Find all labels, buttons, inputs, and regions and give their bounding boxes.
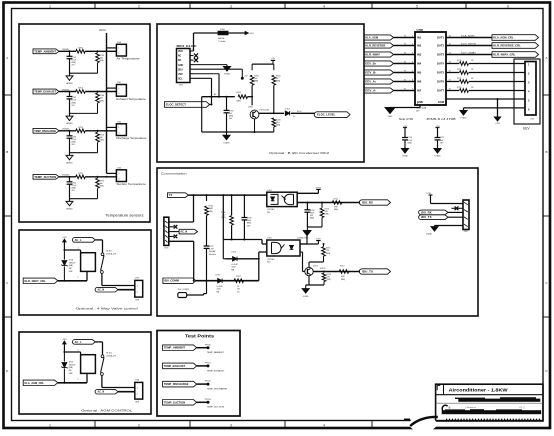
relay RL701 coil <box>81 355 96 374</box>
svg-text:TEMP_DISCHARGE: TEMP_DISCHARGE <box>207 388 228 391</box>
diode D704 flyback <box>63 250 65 260</box>
svg-text:RL701: RL701 <box>106 352 112 354</box>
flag KLA_AGM_CRL <box>23 380 58 385</box>
svg-text:BAV1A: BAV1A <box>218 37 225 40</box>
svg-text:TP701: TP701 <box>205 363 212 365</box>
svg-text:Test Points: Test Points <box>185 333 215 338</box>
svg-text:DGND: DGND <box>303 296 309 298</box>
wire to TP700 <box>197 347 208 349</box>
wire opto2 anode bus <box>223 239 262 241</box>
wire coil return <box>58 280 87 282</box>
svg-text:B: B <box>449 405 451 409</box>
connector J703 comm out <box>463 200 469 230</box>
wire SCL pin to detect riser <box>194 77 212 79</box>
svg-text:TEMP_SUCTION: TEMP_SUCTION <box>164 401 185 404</box>
svg-text:2: 2 <box>138 423 140 427</box>
wire bottom rail to emitter <box>202 131 274 133</box>
svg-text:6: 6 <box>507 4 509 8</box>
svg-text:(MB): (MB) <box>326 253 330 255</box>
svg-text:R712: R712 <box>334 199 339 201</box>
svg-text:OUT1: OUT1 <box>437 36 445 40</box>
svg-text:J707: J707 <box>135 278 139 280</box>
wire OUT6 to EEV <box>446 81 459 83</box>
opto U702 LED <box>290 246 294 250</box>
watermark black band 2 <box>442 410 542 414</box>
svg-text:AC_N: AC_N <box>97 391 104 394</box>
connector J706 MC2_ELOC <box>177 49 191 83</box>
IC U708 ULN2003A <box>415 32 446 105</box>
svg-text:Optional : AGM CONTROL: Optional : AGM CONTROL <box>81 409 132 413</box>
power +5V rail <box>252 63 274 65</box>
wire TX output line <box>313 271 360 273</box>
wire EEV pin5 supply <box>498 98 526 100</box>
svg-text:AC_L: AC_L <box>75 239 82 242</box>
communication section box <box>157 168 478 316</box>
svg-text:1W: 1W <box>237 289 240 291</box>
svg-text:GND: GND <box>388 116 393 118</box>
svg-text:J703: J703 <box>117 167 121 169</box>
svg-text:(MB): (MB) <box>327 279 331 281</box>
flag IDU_TX at connector <box>419 215 448 220</box>
test point TP701 <box>207 364 210 367</box>
svg-text:TEMP_AMBIENT: TEMP_AMBIENT <box>164 347 186 350</box>
svg-text:IDU_RX: IDU_RX <box>421 211 432 214</box>
svg-text:JJM1A-12V: JJM1A-12V <box>106 354 117 357</box>
wire detect node down rail <box>201 97 203 132</box>
svg-text:LL4148: LL4148 <box>217 286 223 288</box>
flag TEMP_DISCHARGE <box>33 128 59 133</box>
svg-text:(MB): (MB) <box>100 100 104 102</box>
flag AC_L top <box>72 238 95 243</box>
power +26V tap at COM <box>494 117 500 121</box>
section box Optional : 4 Way Valve control <box>19 230 151 315</box>
svg-text:DGND: DGND <box>402 156 409 158</box>
wire EEV_A+ to IN6 <box>394 81 416 83</box>
ground DGND below C705 <box>226 132 228 135</box>
title block frame <box>436 384 543 421</box>
diode D707 <box>218 279 222 283</box>
wire EEV_A- to IN7 <box>394 90 416 92</box>
wire contact top <box>95 239 102 241</box>
svg-text:U708: U708 <box>417 28 424 32</box>
svg-text:IN3: IN3 <box>417 53 422 57</box>
svg-text:Temperature sensors: Temperature sensors <box>106 214 144 218</box>
flag EEV_B+ <box>364 61 394 66</box>
svg-text:TEMP_DISCHARGE: TEMP_DISCHARGE <box>164 383 189 386</box>
wire contact to AC_N <box>101 375 103 387</box>
wire IDU_COMM line <box>196 280 259 282</box>
ground DGND above opto2 <box>300 243 307 245</box>
svg-text:PIN5-6 of J708: PIN5-6 of J708 <box>427 117 457 121</box>
ground DGND connector <box>431 227 438 232</box>
flag IDU_RX right <box>359 200 390 205</box>
svg-text:IN6: IN6 <box>417 80 422 84</box>
svg-text:R707: R707 <box>236 276 241 278</box>
flag ELOC_DETECT <box>165 102 210 108</box>
svg-text:EEV_A+: EEV_A+ <box>365 80 377 84</box>
resistor R770 <box>97 131 99 132</box>
wire EEV pin6 to GND <box>464 107 526 109</box>
capacitor C708 <box>306 203 308 210</box>
svg-text:OUT2: OUT2 <box>437 44 445 48</box>
wire connector pin1 <box>431 203 464 205</box>
title block column divider <box>443 384 445 395</box>
wire TEMP_SUCTION to divider <box>59 176 76 178</box>
flag TEMP_SUCTION <box>33 174 59 179</box>
wire OUT5 to EEV <box>446 72 459 74</box>
right margin row ticks <box>543 94 550 96</box>
svg-text:KLR_REVERSE_CRL: KLR_REVERSE_CRL <box>493 44 521 48</box>
svg-text:NC: NC <box>178 56 182 58</box>
wire opto1 emitter line RX <box>297 202 360 204</box>
flag KLR_4WAY_CRL <box>492 52 539 58</box>
opto U701 LED <box>271 197 275 201</box>
svg-text:1N4007: 1N4007 <box>69 262 76 264</box>
bottom margin column ticks <box>94 421 96 429</box>
watermark C mark <box>442 405 448 412</box>
capacitor C705 on detect node <box>226 97 228 111</box>
svg-text:IDU_RX: IDU_RX <box>362 201 373 205</box>
svg-text:AC_N: AC_N <box>180 231 187 234</box>
svg-text:R722: R722 <box>457 78 461 80</box>
svg-text:MazeDa: MazeDa <box>209 254 217 256</box>
svg-text:KLR_REVERSE: KLR_REVERSE <box>365 44 386 48</box>
svg-text:(MB): (MB) <box>237 101 241 103</box>
svg-text:(MB): (MB) <box>310 218 314 220</box>
svg-text:CLB7A-C: CLB7A-C <box>267 208 276 211</box>
wire contact to AC_N <box>101 273 103 285</box>
ground AGND ch3 <box>66 155 73 159</box>
svg-text:IDU_COMM: IDU_COMM <box>178 289 189 291</box>
flag KLR_REVERSE_CRL <box>492 43 539 49</box>
svg-text:KLA_AGM_CRL: KLA_AGM_CRL <box>493 36 514 40</box>
svg-text:VSP: VSP <box>178 74 183 76</box>
svg-text:B: B <box>545 150 547 154</box>
wire TEMP_DISCHARGE to divider <box>59 130 76 132</box>
svg-text:R721: R721 <box>457 69 461 71</box>
svg-text:AVCC: AVCC <box>99 28 106 32</box>
svg-text:J705: J705 <box>530 119 534 121</box>
svg-text:TEMP_SUCTION: TEMP_SUCTION <box>207 407 225 409</box>
wire connector pin4 ground <box>435 225 464 227</box>
wire TEMP_EXHAUST to divider <box>59 91 76 93</box>
opto U701 transistor notch <box>284 194 293 204</box>
svg-text:(MB): (MB) <box>69 265 73 267</box>
ground GND EEV <box>460 111 467 116</box>
svg-text:DVDD: DVDD <box>316 187 322 189</box>
svg-text:+26V: +26V <box>495 123 501 125</box>
svg-text:IN2: IN2 <box>417 44 422 48</box>
resistor R706 <box>231 195 233 215</box>
svg-text:RL700: RL700 <box>106 250 112 252</box>
relay RL700 coil <box>81 253 96 272</box>
svg-text:J700: J700 <box>117 42 121 44</box>
relay contact switch blade <box>101 255 104 270</box>
wire to TP702 <box>197 383 208 385</box>
svg-text:IN7: IN7 <box>417 89 422 93</box>
flag AC_N comm <box>169 231 179 233</box>
flag IDU_TX right <box>359 269 390 274</box>
svg-text:2: 2 <box>78 379 79 381</box>
svg-text:3: 3 <box>230 423 232 427</box>
no-connect pin2 connector <box>452 207 464 209</box>
wire TEMP_AMBIENT to divider <box>59 50 76 52</box>
no-connect pin4 <box>169 235 174 237</box>
svg-text:OUT4: OUT4 <box>437 62 445 66</box>
watermark logo white ellipse <box>409 416 437 431</box>
svg-text:OUT6: OUT6 <box>437 80 445 84</box>
ground GND of U708 <box>385 108 395 114</box>
flag TEMP_AMBIENT <box>33 49 59 54</box>
wire collector output <box>259 112 284 114</box>
svg-text:D706: D706 <box>231 252 236 254</box>
svg-text:LL4148: LL4148 <box>231 264 237 266</box>
wire AC_N to connector <box>118 289 135 291</box>
wire IC GND pin to ground <box>419 105 421 108</box>
svg-text:J703: J703 <box>464 231 468 233</box>
resistor R708 lower <box>272 118 276 127</box>
I2C condenser section box <box>157 24 364 162</box>
wire EEV_B+ to IN4 <box>394 63 416 65</box>
svg-text:EEV_B+: EEV_B+ <box>365 62 377 66</box>
svg-text:SCL: SCL <box>178 78 183 80</box>
resistor R766 <box>97 92 99 93</box>
svg-text:PGND: PGND <box>461 118 467 120</box>
svg-text:TEMP_AMBIENT: TEMP_AMBIENT <box>207 351 225 354</box>
wire ELOC_DETECT to node <box>210 104 212 106</box>
resistor R761 <box>76 175 86 179</box>
svg-text:SDA: SDA <box>178 68 183 71</box>
svg-text:Optional : 4 Way Valve control: Optional : 4 Way Valve control <box>76 307 138 311</box>
capacitor C707 series <box>206 216 208 247</box>
svg-text:5%: 5% <box>237 291 240 293</box>
svg-text:ELOC: ELOC <box>297 111 303 113</box>
wire opto2 cathode riser <box>258 252 260 281</box>
title block bracket mark <box>437 385 440 390</box>
power +26V relay <box>63 239 67 242</box>
svg-text:KLA_AGM_CRL: KLA_AGM_CRL <box>25 382 45 385</box>
flag test point TEMP_DISCHARGE <box>163 381 197 387</box>
connector J702 <box>116 124 126 136</box>
connector J700 <box>116 44 126 56</box>
svg-text:KLA_AGM_: KLA_AGM_ <box>461 34 476 37</box>
svg-text:J708: J708 <box>135 380 139 382</box>
wire KLR_REVERSE to IN2 <box>394 45 416 47</box>
svg-text:(MB): (MB) <box>254 81 258 83</box>
power D702 tap <box>300 243 318 245</box>
flag AC_N bottom <box>95 287 118 292</box>
svg-text:EEV_B-: EEV_B- <box>365 71 376 75</box>
resistor R759 <box>76 129 86 133</box>
svg-text:Air Temperature: Air Temperature <box>116 58 140 61</box>
svg-text:1N4448: 1N4448 <box>62 49 69 51</box>
svg-text:COM: COM <box>438 100 445 104</box>
svg-text:4: 4 <box>78 248 79 250</box>
svg-text:(MB): (MB) <box>100 186 104 188</box>
svg-text:8W: 8W <box>69 268 72 270</box>
svg-text:KLR_4WAY: KLR_4WAY <box>365 53 380 57</box>
wire pin1 to diode D700 <box>193 33 195 51</box>
svg-text:KLR_4WAY_CRL: KLR_4WAY_CRL <box>493 53 516 57</box>
resistor R720 2R <box>460 62 469 66</box>
wire pin1 riser <box>169 221 194 223</box>
diode D706 upper <box>225 258 258 260</box>
svg-text:+26V: +26V <box>62 237 67 239</box>
title block row line 2 <box>436 402 543 404</box>
svg-text:2: 2 <box>138 4 140 8</box>
connector J701 <box>116 85 126 97</box>
flag EEV_A+ <box>364 79 394 84</box>
svg-text:(MB): (MB) <box>209 211 213 213</box>
test points section box <box>157 331 240 417</box>
wire COM to +26V <box>446 98 498 100</box>
svg-text:KST10: KST10 <box>320 268 326 270</box>
test point TP703 <box>207 401 210 404</box>
svg-text:KLR_REVE: KLR_REVE <box>461 43 477 45</box>
wire OUT2 <box>446 45 492 47</box>
svg-text:IDU_TX: IDU_TX <box>421 216 432 219</box>
svg-text:R710: R710 <box>340 266 345 268</box>
svg-text:KT ( ): KT ( ) <box>519 407 525 409</box>
svg-text:ELOC_DETECT: ELOC_DETECT <box>166 103 187 107</box>
svg-text:IDU_TX: IDU_TX <box>362 270 373 274</box>
ground PGND <box>223 67 230 72</box>
svg-text:(MB): (MB) <box>100 140 104 142</box>
wire TX divider branch <box>222 195 224 239</box>
wire pin5 riser down <box>169 240 194 242</box>
transistor Q701 <box>305 267 313 275</box>
ground AGND ch4 <box>66 201 73 205</box>
svg-text:OUT3: OUT3 <box>437 53 445 57</box>
svg-text:KLR_4WAY: KLR_4WAY <box>461 51 477 54</box>
connector J704 comm header <box>164 217 169 245</box>
wire opto1 collector to DVDD <box>297 192 318 194</box>
flag EEV_A- <box>364 88 394 93</box>
connector J705 EEV pin header <box>525 62 536 116</box>
svg-text:TEMP_AMBIENT: TEMP_AMBIENT <box>34 49 56 53</box>
flag ELOC_LEVEL <box>314 112 350 118</box>
svg-text:(MB): (MB) <box>69 367 73 369</box>
svg-text:TP702: TP702 <box>205 381 212 383</box>
svg-text:D704: D704 <box>69 260 74 262</box>
svg-text:(MB): (MB) <box>100 60 104 62</box>
svg-text:+26V: +26V <box>62 339 67 341</box>
svg-text:DGND: DGND <box>302 238 308 240</box>
ground DGND under Q701 <box>305 285 307 289</box>
svg-text:1N4448: 1N4448 <box>62 175 69 177</box>
junction node ch4 <box>69 176 71 178</box>
svg-text:Discharge Temperature: Discharge Temperature <box>116 137 147 140</box>
svg-text:TEMP_EXHAUST: TEMP_EXHAUST <box>207 369 225 372</box>
svg-text:TEMP_EXHAUST: TEMP_EXHAUST <box>164 365 186 368</box>
svg-text:D707: D707 <box>216 274 221 276</box>
wire OUT3 <box>446 54 492 56</box>
resistor R721 2R <box>460 71 469 75</box>
capacitor C703 <box>69 131 71 136</box>
svg-text:Tr: blabla: Tr: blabla <box>218 41 225 43</box>
capacitor C706 <box>243 195 245 217</box>
junction node ch2 <box>69 91 71 93</box>
capacitor C701 <box>69 51 71 56</box>
svg-text:A0: A0 <box>214 93 216 96</box>
svg-text:VDD: VDD <box>178 51 183 53</box>
svg-text:2: 2 <box>78 277 79 279</box>
wire EEV_B- to IN5 <box>394 72 416 74</box>
svg-text:B: B <box>6 150 8 154</box>
svg-text:DGND: DGND <box>223 142 230 144</box>
svg-text:CLB7A-C: CLB7A-C <box>267 258 276 261</box>
flag TX input <box>168 193 189 198</box>
relay contact NO <box>101 271 104 274</box>
resistor R710 <box>339 270 349 274</box>
wire AVCC bus <box>106 33 108 173</box>
svg-text:DGND: DGND <box>426 234 432 236</box>
capacitor C702 <box>69 92 71 97</box>
svg-text:TEMP_DISCHARGE: TEMP_DISCHARGE <box>34 129 56 133</box>
svg-text:IDU_COMM: IDU_COMM <box>164 279 179 283</box>
wire KLA_AGM to IN1 <box>394 37 416 39</box>
wire to TP703 <box>197 401 208 403</box>
relay contact common <box>101 253 104 256</box>
svg-text:A: A <box>6 56 8 60</box>
svg-text:500VAC: 500VAC <box>209 250 217 253</box>
svg-text:AGND: AGND <box>66 82 73 85</box>
wire VSP pin down to base node <box>194 73 220 75</box>
wire TX main line <box>189 194 267 196</box>
wire contact top <box>95 341 102 343</box>
resistor R704 <box>206 195 208 201</box>
svg-text:4: 4 <box>78 350 79 352</box>
resistor R722 2R <box>460 80 469 84</box>
wire coil return <box>58 382 87 384</box>
resistor R716 <box>323 272 325 273</box>
wire coil supply <box>64 351 80 353</box>
svg-text:TP700: TP700 <box>205 344 212 346</box>
flag IDU_RX at connector <box>419 210 448 215</box>
svg-text:(MB): (MB) <box>334 209 338 211</box>
resistor R702 <box>238 95 247 99</box>
svg-text:1N4007: 1N4007 <box>69 364 76 366</box>
svg-text:4: 4 <box>323 423 325 427</box>
svg-text:EEV_A-: EEV_A- <box>365 89 376 93</box>
wire AC_N to connector <box>118 391 135 393</box>
wire OUT1 <box>446 37 492 39</box>
svg-text:ELOC_LEVEL: ELOC_LEVEL <box>317 113 336 117</box>
connector J703 <box>116 170 126 182</box>
svg-text:JJM1A-12V: JJM1A-12V <box>106 252 117 255</box>
svg-text:TX: TX <box>169 194 173 197</box>
svg-text:KLA_AGM: KLA_AGM <box>365 36 378 40</box>
svg-text:R720: R720 <box>457 60 461 62</box>
capacitor C704 <box>69 177 71 182</box>
diode D700 BAV1A <box>218 31 228 35</box>
test point TP702 <box>207 383 210 386</box>
wire to ELOC_LEVEL flag <box>291 112 315 114</box>
wire emitter to ground rail <box>308 276 310 285</box>
flag KLA_AGM <box>364 35 394 40</box>
junction node ch3 <box>69 130 71 132</box>
svg-text:EEV: EEV <box>523 127 530 131</box>
svg-text:A: A <box>545 56 547 60</box>
svg-text:(MB): (MB) <box>325 214 329 216</box>
flag KLA_AGM_CRL <box>492 35 539 41</box>
flag KLR_4WAY <box>364 52 394 57</box>
svg-text:Near U700: Near U700 <box>399 118 414 121</box>
no-connect pin2 <box>169 226 174 228</box>
svg-text:NC: NC <box>178 60 182 62</box>
wire base drive line <box>202 96 235 98</box>
title block title underline <box>436 394 543 396</box>
